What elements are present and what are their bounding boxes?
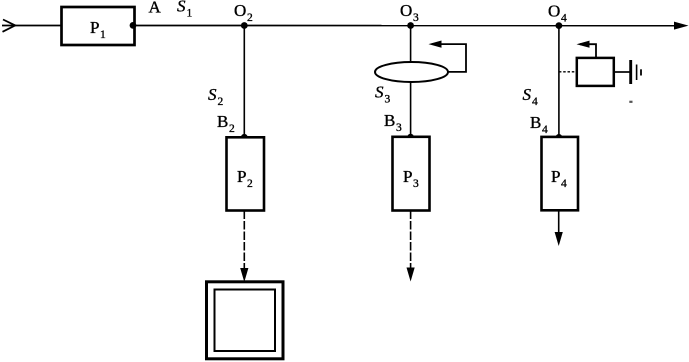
- svg-text:3: 3: [385, 94, 391, 106]
- svg-text:4: 4: [542, 124, 548, 136]
- svg-text:P: P: [237, 167, 246, 186]
- svg-text:O: O: [548, 2, 560, 21]
- svg-text:O: O: [234, 1, 246, 20]
- svg-text:S: S: [375, 83, 384, 102]
- svg-text:B: B: [530, 113, 541, 132]
- svg-text:2: 2: [229, 123, 235, 135]
- svg-text:2: 2: [247, 178, 253, 190]
- svg-text:2: 2: [218, 96, 224, 108]
- svg-text:1: 1: [187, 8, 193, 20]
- svg-text:S: S: [208, 85, 217, 104]
- svg-text:B: B: [217, 112, 228, 131]
- svg-text:4: 4: [561, 13, 567, 25]
- svg-text:B: B: [384, 111, 395, 130]
- svg-text:2: 2: [247, 12, 253, 24]
- svg-text:P: P: [403, 167, 412, 186]
- svg-text:A: A: [149, 0, 162, 17]
- svg-text:P: P: [551, 167, 560, 186]
- svg-text:S: S: [177, 0, 186, 16]
- svg-text:4: 4: [561, 178, 567, 190]
- svg-text:4: 4: [532, 96, 538, 108]
- svg-text:P: P: [90, 18, 99, 37]
- svg-text:1: 1: [100, 29, 106, 41]
- svg-text:O: O: [400, 1, 412, 20]
- svg-text:3: 3: [396, 122, 402, 134]
- svg-text:S: S: [523, 85, 532, 104]
- svg-text:3: 3: [413, 178, 419, 190]
- svg-text:3: 3: [413, 12, 419, 24]
